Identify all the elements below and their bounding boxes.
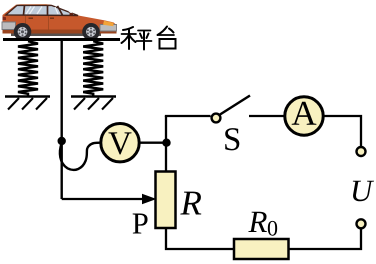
label A: [292, 102, 317, 125]
rear bumper: [2, 22, 16, 30]
window pillar B: [24, 5, 25, 15]
platform (scale table): [3, 38, 120, 41]
switch S: [212, 114, 221, 123]
window pillar C: [47, 5, 49, 15]
node: junction dot left: [58, 137, 66, 145]
label P: [133, 214, 148, 234]
car body: [3, 4, 117, 33]
voltmeter V: [101, 124, 139, 162]
label S: [225, 128, 239, 150]
wire: platform rod down to slider arm: [61, 40, 63, 199]
taillight: [3, 17, 7, 21]
headlight: [103, 21, 114, 27]
door handles: [29, 17, 55, 19]
wire: voltmeter to node: [140, 142, 167, 144]
side mirror: [70, 13, 74, 16]
wire: ammeter to upper terminal: [323, 116, 361, 146]
left spring: [18, 41, 38, 96]
front wheel: [82, 23, 100, 41]
front bumper: [100, 25, 117, 32]
left ground: [5, 97, 50, 110]
label U: [353, 181, 374, 202]
wire: horizontal to slider arrow: [62, 198, 146, 200]
label R0 subscript 0: [268, 221, 277, 236]
slider arrow head (wiper P): [142, 194, 157, 204]
wire: loose squiggle to voltmeter: [60, 143, 101, 170]
car on platform: [2, 4, 117, 40]
window band: [6, 5, 78, 15]
terminal lower: [357, 219, 366, 228]
label 秤台 (hand-drawn glyphs): [122, 27, 176, 50]
台: [158, 27, 168, 36]
wire: top left corner to switch: [166, 116, 211, 117]
right ground: [71, 97, 116, 110]
right spring: [83, 41, 103, 96]
resistor R0: [234, 239, 289, 259]
ammeter A: [285, 97, 323, 135]
label V: [108, 132, 131, 154]
wire: lower terminal to R0: [290, 229, 362, 249]
glass glints: [26, 7, 73, 15]
label R0: [248, 212, 267, 232]
window pillar A: [58, 6, 63, 15]
rear wheel: [14, 23, 32, 41]
door seams: [26, 16, 49, 30]
lower skirt: [3, 30, 117, 34]
underbody shadow: [11, 33, 101, 36]
wire: R0 to resistor R bottom: [166, 228, 234, 249]
wire: switch to ammeter: [249, 115, 285, 117]
秤: 平: [138, 30, 151, 32]
秤: 禾 radical: [123, 27, 133, 30]
roof highlight: [16, 5, 53, 6]
wire: vertical through node to resistor R: [165, 116, 167, 171]
label R: [180, 192, 201, 215]
terminal upper: [357, 147, 366, 156]
resistor R (rheostat): [156, 172, 176, 229]
node: junction dot right: [162, 139, 170, 147]
